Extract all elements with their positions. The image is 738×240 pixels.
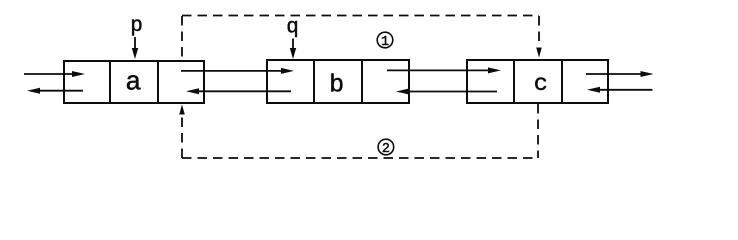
dashed path 2 vertical from node c bottom [537, 104, 539, 158]
svg-text:q: q [286, 17, 299, 40]
wire left inbound forward arrow [24, 71, 85, 77]
wire c to b back arrow [396, 89, 497, 95]
wire left outbound back arrow [27, 88, 83, 94]
wire a to b forward arrow [181, 68, 294, 74]
dashed path 2 bottom horizontal [182, 157, 538, 159]
wire b to c forward arrow [387, 67, 501, 73]
wire b to a back arrow [186, 88, 291, 94]
svg-text:p: p [130, 15, 143, 38]
svg-text:c: c [534, 71, 548, 98]
dashed path 1 right vertical arrow into node c top [536, 16, 542, 58]
circled number 1 [377, 32, 393, 50]
svg-text:b: b [329, 70, 344, 99]
node b box [267, 60, 409, 103]
dashed path 2 left vertical arrow into node a bottom [179, 105, 185, 159]
pointer p down arrow [132, 37, 138, 59]
wire c outbound forward arrow [586, 71, 654, 77]
node c box [467, 60, 608, 103]
svg-text:1: 1 [381, 35, 389, 50]
svg-text:2: 2 [382, 142, 390, 157]
node a box [64, 61, 204, 103]
dashed path 1 left vertical from node a top [181, 16, 183, 60]
svg-text:a: a [125, 69, 141, 99]
circled number 2 [378, 139, 394, 157]
pointer q down arrow [290, 39, 296, 60]
wire right inbound back arrow [587, 87, 653, 93]
dashed path 1 top horizontal [182, 15, 539, 17]
